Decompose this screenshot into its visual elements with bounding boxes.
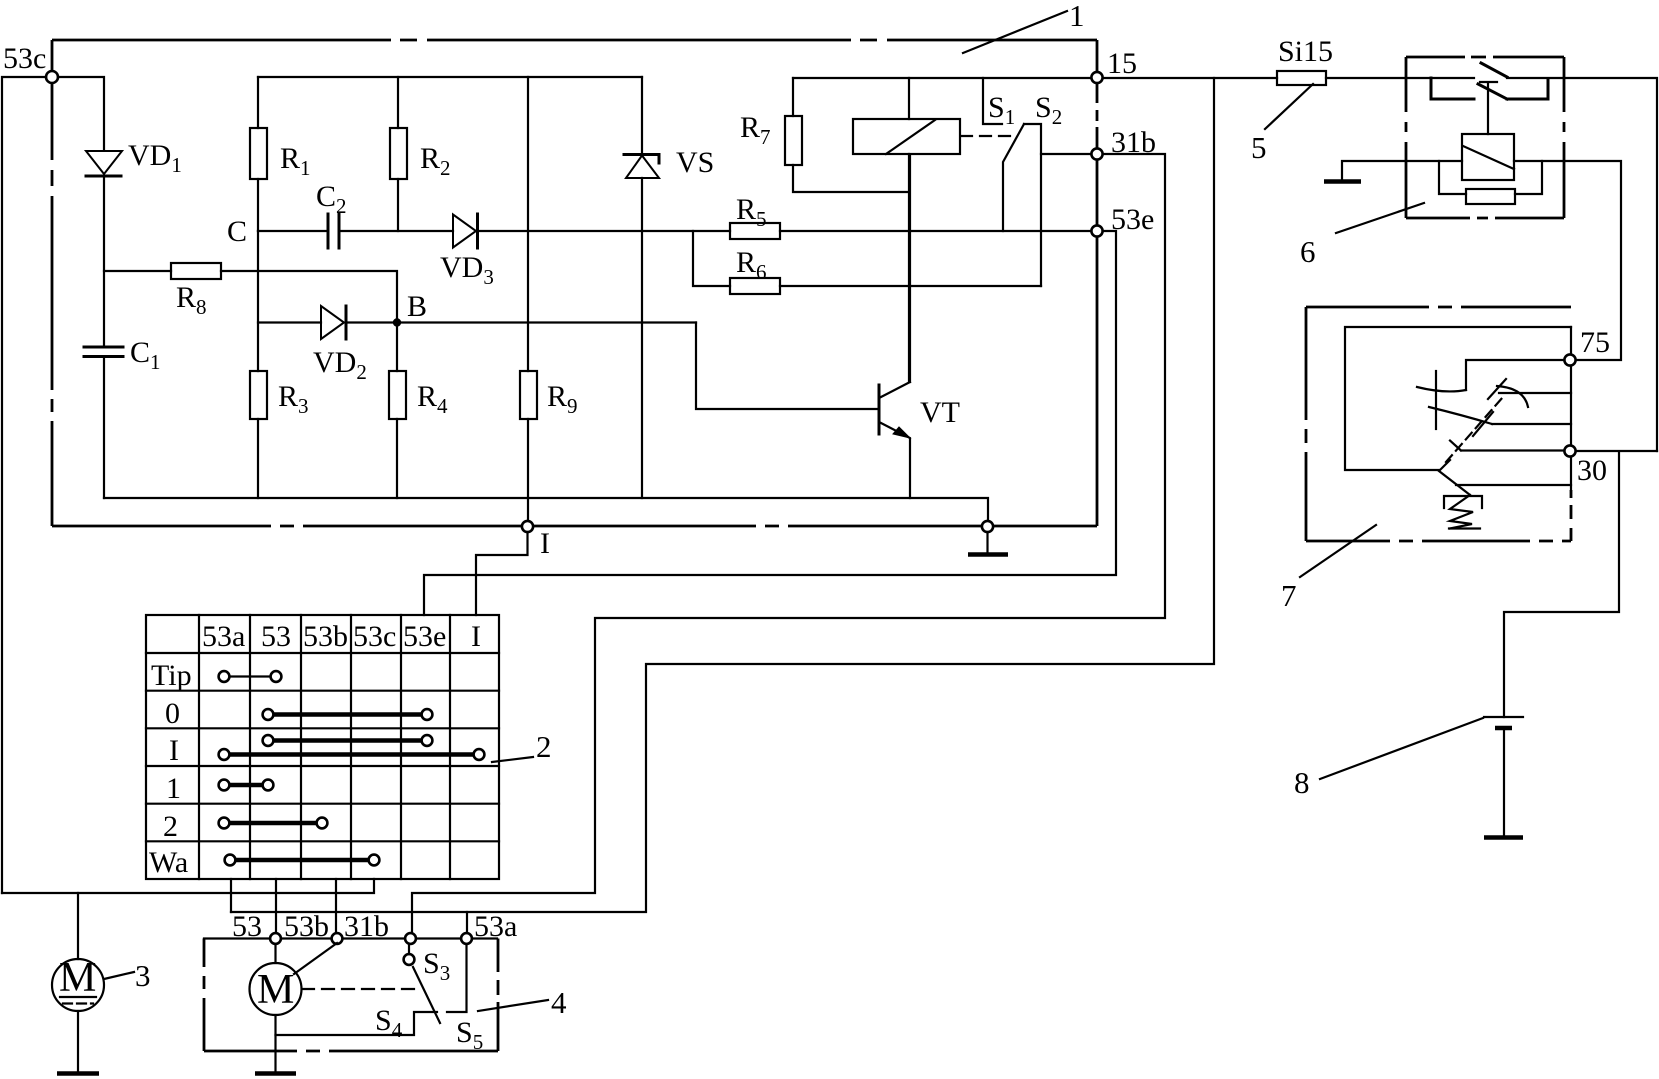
svg-text:53e: 53e xyxy=(403,620,446,653)
contact lower line xyxy=(1492,423,1571,425)
node 53 washer xyxy=(270,933,281,944)
unit 1 border (dash-dot box of electronic relay) xyxy=(52,40,1097,526)
switch S2 blade xyxy=(1003,124,1024,231)
unit 6 lower bypass contact xyxy=(1431,78,1548,99)
switch unit 2 table grid xyxy=(146,615,499,879)
ground unit 6 xyxy=(1324,179,1361,184)
svg-text:53a: 53a xyxy=(202,620,245,653)
svg-text:I: I xyxy=(540,527,550,560)
transistor VT xyxy=(696,155,910,498)
capacitor C2 xyxy=(328,214,453,248)
switch S1 fixed contact xyxy=(983,78,1002,124)
svg-text:I: I xyxy=(169,734,179,767)
unit 6 relay coil xyxy=(1462,134,1514,180)
wire 53c to left edge and down to bottom wire xyxy=(2,77,46,893)
node 15 xyxy=(1091,72,1102,83)
washer node rail xyxy=(204,937,497,939)
inner top rail xyxy=(258,76,642,78)
label 7 leader xyxy=(1300,525,1376,577)
node I circle xyxy=(522,521,533,532)
ignition switch arc upper xyxy=(1417,387,1466,391)
contact bar 2 row xyxy=(219,818,328,829)
contact 30 line with tick xyxy=(1450,441,1564,451)
wire line B xyxy=(258,321,321,323)
contact middle thin with tick xyxy=(1499,392,1571,394)
motor 3 xyxy=(52,893,104,1074)
svg-text:M: M xyxy=(59,955,96,1001)
relay rail to node 15 xyxy=(793,77,1091,79)
fuse Si15 xyxy=(1277,71,1326,85)
node 75 xyxy=(1564,354,1575,365)
svg-text:53b: 53b xyxy=(284,910,329,943)
svg-text:2: 2 xyxy=(536,729,552,764)
svg-text:Si15: Si15 xyxy=(1278,35,1333,68)
svg-text:VS: VS xyxy=(676,146,714,179)
contact S5 from 53a xyxy=(447,944,467,1012)
unit 6 breaker contact upper blade xyxy=(1481,63,1507,77)
svg-text:Wa: Wa xyxy=(149,846,188,879)
svg-text:4: 4 xyxy=(551,985,567,1020)
resistor R9 xyxy=(520,77,537,498)
resistor R5 xyxy=(730,223,1091,239)
node B junction dot xyxy=(393,318,401,326)
svg-text:53: 53 xyxy=(232,910,262,943)
rail fuse to unit 6 xyxy=(1326,77,1474,79)
node 31b washer xyxy=(405,933,416,944)
wire R9 column to node I xyxy=(527,498,529,521)
svg-text:M: M xyxy=(257,967,294,1013)
svg-text:53e: 53e xyxy=(1111,203,1154,236)
contact bar 1 row xyxy=(219,780,274,791)
svg-text:31b: 31b xyxy=(344,910,389,943)
unit 7 border (dash-dot) xyxy=(1306,307,1571,541)
rail through unit 6 to right edge xyxy=(1507,78,1657,451)
resistor R4 xyxy=(389,323,406,499)
label 5 leader xyxy=(1265,84,1313,129)
svg-text:53b: 53b xyxy=(303,620,348,653)
mechanical link relay to S1 S2 xyxy=(961,135,1010,137)
node 53b washer xyxy=(332,933,343,944)
ignition switch pivot cross xyxy=(1435,371,1437,429)
switch S3 xyxy=(404,944,415,965)
contact bar 0 row xyxy=(263,709,433,720)
svg-text:Tip: Tip xyxy=(151,659,192,692)
inner bottom rail xyxy=(104,498,988,520)
wire node I down to table I column xyxy=(476,532,528,615)
return spring xyxy=(1444,495,1482,529)
switch S2 fixed contact xyxy=(1024,124,1041,286)
svg-text:15: 15 xyxy=(1107,47,1137,80)
svg-text:8: 8 xyxy=(1294,765,1310,800)
label 4 leader xyxy=(478,1000,548,1011)
ground node circle on border xyxy=(982,521,993,532)
diode VD3 xyxy=(453,214,730,248)
wire 53c bottom run to table 53c column xyxy=(2,879,374,893)
label 1 leader xyxy=(963,11,1067,53)
relay K coil xyxy=(853,78,960,382)
unit 6 coil left wire to ground xyxy=(1342,161,1462,179)
svg-text:1: 1 xyxy=(166,772,181,805)
wiper solid tick xyxy=(1473,412,1493,436)
unit 7 inner housing xyxy=(1345,327,1571,470)
washer motor M xyxy=(250,943,338,1074)
resistor R8 xyxy=(104,263,397,319)
svg-text:6: 6 xyxy=(1300,234,1316,269)
svg-text:1: 1 xyxy=(1069,0,1085,33)
contact bar Wa row xyxy=(225,855,380,866)
node 53e xyxy=(1091,225,1102,236)
svg-text:53c: 53c xyxy=(3,42,46,75)
node 31b xyxy=(1091,148,1102,159)
unit 4 border (dash-dot) xyxy=(204,939,498,1052)
svg-text:75: 75 xyxy=(1580,326,1610,359)
label 8 leader xyxy=(1320,718,1483,779)
resistor R2 xyxy=(390,77,407,231)
switch S5 blade xyxy=(413,967,440,1023)
zener diode VS xyxy=(624,77,659,498)
contact 75 step xyxy=(1466,360,1564,390)
unit 6 armature T-bar xyxy=(1480,82,1497,134)
label 3 leader xyxy=(104,972,134,979)
unit 7 right terminal strip xyxy=(1570,327,1572,490)
wiper dashed diagonal xyxy=(1446,397,1503,462)
node 53c xyxy=(46,71,58,83)
blade V at housing end xyxy=(1439,460,1470,495)
resistor R6 xyxy=(693,231,1041,294)
svg-text:53a: 53a xyxy=(474,910,517,943)
wire table 53b column to node 53b xyxy=(335,879,337,934)
unit 6 parallel resistor xyxy=(1439,161,1542,204)
wire table 53a column stub xyxy=(230,879,232,912)
capacitor C1 xyxy=(84,347,123,498)
contact S4 step from motor xyxy=(276,1012,438,1035)
contact hook curve xyxy=(1497,386,1528,407)
wire 53e to right and down to table 53e column xyxy=(424,231,1116,615)
label 2 leader xyxy=(492,757,533,762)
ground xyxy=(968,532,1008,555)
node 30 xyxy=(1564,445,1575,456)
svg-text:0: 0 xyxy=(165,697,180,730)
wire 53a feed from rail down xyxy=(231,78,1214,912)
wire 53a junction down to washer node 53a xyxy=(466,912,468,934)
svg-text:B: B xyxy=(407,290,427,323)
wire 30 to right edge and battery xyxy=(1504,451,1657,717)
battery 8 xyxy=(1484,717,1523,838)
ignition switch arc lower xyxy=(1429,407,1492,424)
main rail node 15 to fuse xyxy=(1103,77,1277,79)
svg-text:3: 3 xyxy=(135,958,151,993)
svg-text:30: 30 xyxy=(1577,454,1607,487)
wire 53c right to VD1 branch xyxy=(58,77,104,150)
diode VD1 xyxy=(86,151,122,346)
contact bar I row lower xyxy=(219,749,485,760)
svg-text:7: 7 xyxy=(1281,578,1297,613)
resistor R7 xyxy=(785,78,909,192)
wire 31b to right and down to washer unit xyxy=(412,154,1165,934)
resistor R1 xyxy=(250,77,267,231)
contact start line xyxy=(1456,484,1571,486)
svg-text:I: I xyxy=(471,620,481,653)
wire table 53 column to node 53 xyxy=(275,879,277,934)
node 53a washer xyxy=(461,933,472,944)
contact bar I row upper xyxy=(263,735,433,746)
svg-text:5: 5 xyxy=(1251,130,1267,165)
resistor R3 xyxy=(250,231,267,498)
contact bar Tip row xyxy=(219,671,282,682)
svg-text:53c: 53c xyxy=(353,620,396,653)
svg-text:2: 2 xyxy=(163,810,178,843)
unit 6 output wire to node 75 xyxy=(1514,161,1621,360)
diode VD2 xyxy=(321,306,696,339)
wire line C xyxy=(258,230,327,232)
svg-text:53: 53 xyxy=(261,620,291,653)
svg-text:VT: VT xyxy=(920,396,960,429)
unit 6 border (dash-dot) xyxy=(1406,57,1564,218)
label 6 leader xyxy=(1336,203,1424,233)
mechanical link motor to S5 xyxy=(302,988,419,990)
svg-text:C: C xyxy=(227,215,247,248)
